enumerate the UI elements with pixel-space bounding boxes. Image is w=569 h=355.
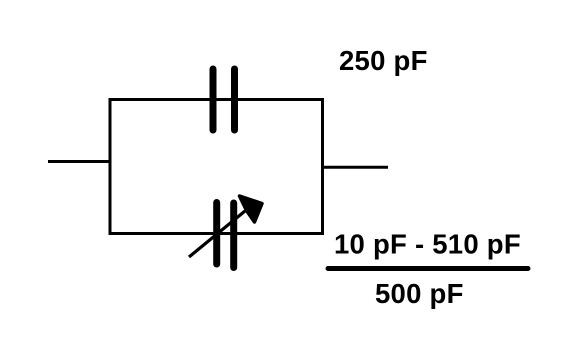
wire: top side of parallel loop (109, 98, 325, 101)
svg-text:10 pF - 510 pF: 10 pF - 510 pF (334, 229, 521, 260)
svg-text:500 pF: 500 pF (375, 278, 464, 309)
wire: right side of parallel loop (321, 98, 324, 235)
fraction line (328, 266, 528, 271)
wire: right lead (322, 166, 388, 169)
svg-text:250 pF: 250 pF (339, 45, 428, 76)
capacitor C1 fixed 250 pF (top branch) (213, 69, 235, 130)
wire: left side of parallel loop (109, 98, 112, 235)
wire: bottom side of parallel loop (109, 232, 325, 235)
wire: left lead (48, 160, 110, 163)
capacitor C2 variable 10-510 pF (bottom branch) (189, 196, 262, 268)
